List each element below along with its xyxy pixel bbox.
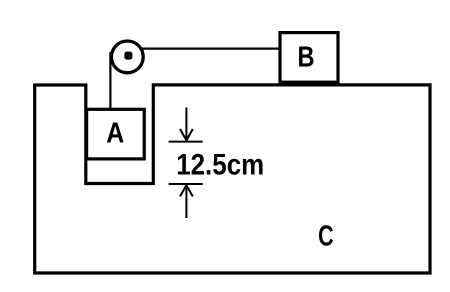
block A	[87, 109, 145, 159]
svg-text:B: B	[298, 42, 315, 74]
svg-text:C: C	[318, 221, 334, 253]
dimension bottom tick	[169, 183, 203, 185]
dimension top tick	[169, 141, 203, 143]
pulley wheel	[111, 41, 143, 73]
svg-text:12.5cm: 12.5cm	[176, 148, 264, 181]
block B	[280, 33, 338, 83]
wire string pulley-to-B	[142, 47, 280, 49]
block C outline	[35, 85, 430, 273]
dimension down arrow	[180, 108, 193, 141]
pulley axle dot	[124, 52, 132, 60]
svg-text:A: A	[106, 117, 124, 149]
dimension up arrow	[180, 185, 193, 218]
wire string pulley-to-A	[109, 52, 111, 110]
